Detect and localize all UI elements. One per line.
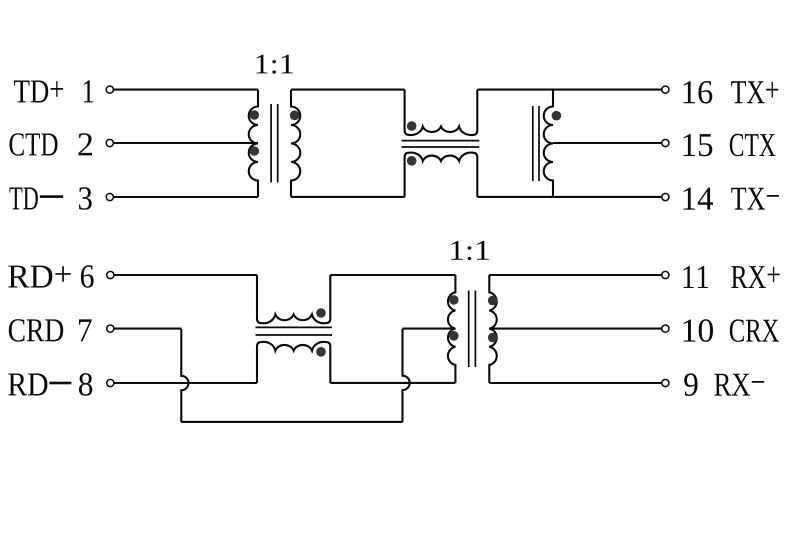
wire T1 secondary top to choke L1 xyxy=(291,89,405,91)
wire choke L2 bottom to T2 primary xyxy=(330,382,455,384)
wire pin1 to T1 primary top xyxy=(113,89,258,91)
wire pin8 to choke L2 xyxy=(114,382,257,384)
pin 14 terminal xyxy=(662,193,669,200)
CRD riser with hop over RD- wire xyxy=(181,329,188,422)
label TD- pin 3 xyxy=(10,188,38,210)
pin 7 terminal xyxy=(107,325,114,332)
label RD+ pin 6 xyxy=(8,266,71,288)
label 11 RX+ xyxy=(684,266,709,288)
pin 6 terminal xyxy=(107,271,114,278)
pin 16 terminal xyxy=(662,86,669,93)
label RD- pin 8 xyxy=(8,374,47,396)
label 1:1 of transformer T1 xyxy=(256,55,293,74)
choke L1 upper dot xyxy=(407,121,417,131)
label 9 RX- xyxy=(684,373,697,396)
pin 9 terminal xyxy=(662,379,669,386)
pin 10 terminal xyxy=(662,325,669,332)
choke L2 lower winding xyxy=(257,342,330,383)
transformer T2 secondary winding xyxy=(489,275,496,383)
transformer T1 primary winding xyxy=(249,90,258,197)
choke L2 lower dot xyxy=(316,347,326,357)
choke L1 lower dot xyxy=(407,156,417,166)
bottom bus wire xyxy=(181,421,402,423)
wire choke L1 bottom to pin 14 xyxy=(477,196,662,198)
AT1 phasing dot xyxy=(552,111,562,121)
transformer T1 core xyxy=(270,104,272,183)
wire T2 secondary top to pin 11 xyxy=(489,274,662,276)
label 16 TX+ xyxy=(684,81,713,104)
wire choke L1 top to pin 16 xyxy=(477,89,662,91)
wire T1 secondary bottom to choke L1 xyxy=(291,196,405,198)
wire choke L2 top to T2 primary xyxy=(330,274,455,276)
label 14 TX- xyxy=(684,188,714,210)
wire pin7 to vertical riser xyxy=(114,328,181,330)
autotransformer AT1 core xyxy=(532,106,534,181)
choke L2 upper dot xyxy=(316,308,326,318)
wire pin6 to choke L2 xyxy=(114,274,257,276)
T1 primary dot lower xyxy=(250,146,260,156)
wire pin2 to T1 primary center tap xyxy=(113,142,258,144)
T1 secondary dot xyxy=(290,111,300,121)
T2 secondary dot upper xyxy=(488,296,498,306)
label 15 CTX xyxy=(684,134,713,156)
choke L1 upper winding xyxy=(405,90,478,135)
pin 3 terminal xyxy=(106,193,113,200)
T2 primary dot lower xyxy=(449,331,459,341)
pin 11 terminal xyxy=(662,271,669,278)
choke L2 core xyxy=(256,326,333,328)
wire T2 secondary bottom to pin 9 xyxy=(489,382,662,384)
autotransformer AT1 winding xyxy=(544,90,553,197)
transformer T2 core xyxy=(468,291,470,368)
pin 2 terminal xyxy=(106,139,113,146)
T1 primary dot upper xyxy=(250,110,260,120)
label CTD pin 2 xyxy=(10,133,58,156)
label 10 CRX xyxy=(684,319,714,342)
transformer T1 secondary winding xyxy=(291,90,300,197)
T2 secondary dot lower xyxy=(488,333,498,343)
wire T2 secondary center tap to pin 10 xyxy=(489,328,662,330)
choke L2 upper winding xyxy=(257,275,330,323)
pin 8 terminal xyxy=(107,379,114,386)
pin 15 terminal xyxy=(662,139,669,146)
T2 primary dot upper xyxy=(449,295,459,305)
label 1:1 of transformer T2 xyxy=(451,241,489,260)
wire AT1 center tap to pin 15 xyxy=(553,142,662,144)
riser to T2 center tap with hop xyxy=(403,329,410,422)
label TD+ pin 1 xyxy=(14,81,63,103)
choke L1 core xyxy=(402,140,480,142)
transformer T2 primary winding xyxy=(448,275,455,383)
pin 1 terminal xyxy=(106,86,113,93)
wire pin3 to T1 primary bottom xyxy=(113,196,258,198)
wire riser to T2 primary center tap xyxy=(403,328,456,330)
label CRD pin 7 xyxy=(9,319,63,342)
choke L1 lower winding xyxy=(405,153,478,197)
